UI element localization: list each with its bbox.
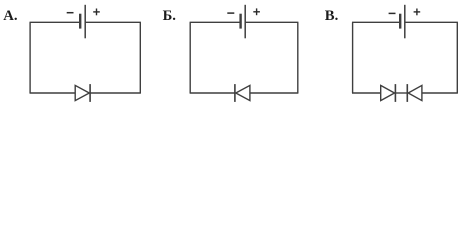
wire: circuit V bottom-left to diode VD3 anode [352,92,381,94]
battery GB2: tall positive plate [244,5,246,39]
wire: circuit V right vertical [456,22,458,93]
label minus sign (battery V) [389,12,396,14]
label plus sign (battery B) [253,8,260,15]
wire: circuit A battery plus plate to top-right [85,21,141,23]
wire: circuit B right vertical [297,22,299,93]
wire: circuit V battery plus plate to top-right [405,21,458,23]
label plus sign (battery A) [93,9,100,16]
diode VD2: cathode bar [234,84,236,102]
battery GB1: tall positive plate [84,5,86,39]
battery GB3: short negative plate [399,14,401,29]
wire: circuit A top-left to battery minus plate [30,21,81,23]
label minus sign (battery A) [67,12,74,14]
battery GB3: tall positive plate [404,5,406,39]
wire: circuit V diode VD4 anode to bottom-right [422,92,458,94]
wire: circuit B diode anode to bottom-right [250,92,299,94]
svg-text:А.: А. [3,8,18,24]
svg-text:В.: В. [325,8,339,24]
wire: circuit B top-left to battery minus plate [190,21,241,23]
battery GB1: short negative plate [79,14,81,29]
diode VD4: triangle pointing left [408,85,422,100]
label minus sign (battery B) [227,12,234,14]
wire: circuit B battery plus plate to top-right [245,21,298,23]
wire: circuit A right vertical [139,22,141,93]
diode VD1: triangle pointing right [75,85,89,100]
diode VD3: cathode bar [394,84,396,102]
wire: circuit V top-left to battery minus plate [352,21,400,23]
wire: circuit B left vertical [189,22,191,93]
svg-text:Б.: Б. [163,8,177,24]
label plus sign (battery V) [414,9,421,16]
diode VD1: cathode bar [89,84,91,102]
wire: circuit A bottom-left to diode anode [30,92,76,94]
diode VD4: cathode bar [406,84,408,102]
wire: between diode VD3 and diode VD4 [395,92,407,94]
wire: circuit A diode cathode to bottom-right [90,92,141,94]
diode VD3: triangle pointing right [381,85,395,100]
wire: circuit V left vertical [352,22,354,93]
diode VD2: triangle pointing left [236,85,250,100]
wire: circuit A left vertical [29,22,31,93]
battery GB2: short negative plate [239,14,241,29]
wire: circuit B bottom-left to diode cathode [190,92,235,94]
